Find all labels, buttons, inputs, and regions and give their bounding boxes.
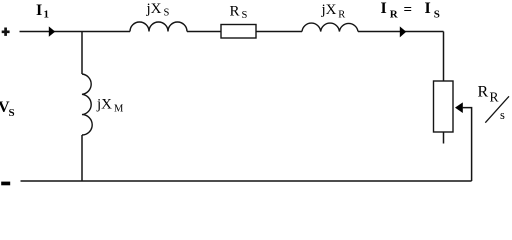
value label RR over s <box>478 84 506 123</box>
wire: magnetizing branch lower segment to bottom wire <box>81 135 83 181</box>
wire: top-right segment from jXR coil to right corner <box>358 31 444 33</box>
svg-text:s: s <box>500 108 505 122</box>
svg-text:S: S <box>164 8 170 19</box>
svg-text:R: R <box>478 84 489 101</box>
svg-text:R: R <box>230 4 240 20</box>
terminal + (positive input terminal) <box>2 28 10 36</box>
wire: stub below RR/s resistor <box>443 132 445 144</box>
value label RS <box>230 4 248 22</box>
svg-text:I: I <box>381 0 387 17</box>
terminal - (negative input terminal) <box>1 182 10 186</box>
svg-text:jX: jX <box>96 96 112 112</box>
wire: top-left segment from + terminal to jXS coil <box>20 31 131 33</box>
svg-text:1: 1 <box>44 9 50 21</box>
node: junction of magnetizing branch with top wire <box>81 32 83 75</box>
value label jXS <box>146 1 170 19</box>
svg-text:S: S <box>9 107 15 119</box>
arrowhead pointing at RR/s resistor (variable / slip dependence) <box>455 102 463 113</box>
label VS (source voltage) <box>0 99 15 119</box>
svg-text:jX: jX <box>321 2 337 18</box>
resistor RS (stator resistance, box symbol) <box>221 25 256 39</box>
wire: right vertical drop to RR/s resistor <box>443 32 445 82</box>
svg-text:R: R <box>390 8 399 20</box>
inductor jXS (stator leakage reactance coil) <box>130 22 187 32</box>
wire: between jXS coil and RS resistor <box>187 31 221 33</box>
wire: elbow from arrow down to bottom wire <box>462 108 472 181</box>
svg-text:R: R <box>490 90 499 105</box>
inductor jXM (magnetizing reactance coil, vertical) <box>82 74 92 135</box>
fraction slash for RR/s <box>485 96 509 122</box>
resistor RR/s (rotor resistance over slip, vertical box symbol) <box>434 81 454 132</box>
svg-text:I: I <box>425 0 431 17</box>
arrowhead for I1 on top-left wire <box>49 26 55 36</box>
inductor jXR (rotor leakage reactance coil) <box>302 23 358 31</box>
svg-text:R: R <box>338 9 345 20</box>
wire: between RS resistor and jXR coil <box>256 31 302 33</box>
arrowhead for IR on top-right wire <box>400 26 406 37</box>
label IR = IS (rotor current equals load current) <box>381 0 440 20</box>
svg-text:jX: jX <box>146 1 162 17</box>
svg-text:=: = <box>404 2 413 18</box>
label I1 (input current) <box>36 2 49 21</box>
value label jXR <box>321 2 346 20</box>
wire: bottom return wire <box>21 180 472 182</box>
svg-text:S: S <box>434 8 440 20</box>
svg-text:I: I <box>36 2 42 19</box>
svg-text:M: M <box>114 104 124 115</box>
svg-text:S: S <box>242 10 248 21</box>
value label jXM <box>96 96 124 114</box>
